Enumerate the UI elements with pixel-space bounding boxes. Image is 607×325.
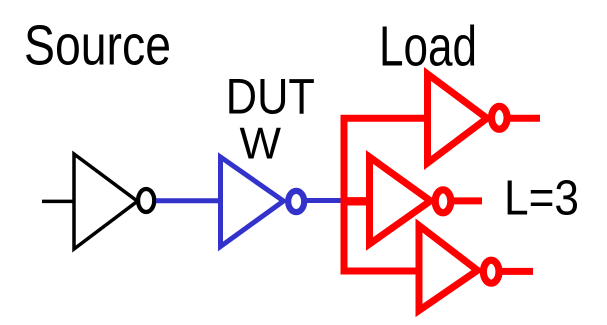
inverter U1 source (black) triangle — [74, 154, 138, 249]
inverter U3 output bubble — [492, 106, 508, 129]
inverter U4 output bubble — [435, 190, 451, 213]
inverter U5 output bubble — [483, 260, 499, 283]
wire: source output to DUT input (blue) — [156, 198, 221, 203]
wire: red load bus (top branch, vertical, bottom branch) — [344, 118, 428, 271]
svg-text:DUT: DUT — [226, 69, 315, 125]
inverter U2 output bubble — [288, 191, 304, 212]
svg-text:Source: Source — [24, 15, 171, 78]
wire: U4 output stub — [453, 197, 483, 204]
wire: U3 output stub — [506, 115, 540, 122]
inverter U1 output bubble — [138, 189, 154, 212]
inverter U5 load bottom (red) triangle — [419, 226, 478, 311]
svg-text:W: W — [240, 120, 282, 169]
svg-text:L=3: L=3 — [504, 171, 579, 225]
wire: U5 output stub — [502, 268, 533, 275]
inverter U2 DUT (blue) triangle — [221, 157, 284, 247]
wire: bus to middle load inverter input — [344, 197, 370, 205]
wire: DUT output to load bus (blue) — [305, 198, 344, 203]
inverter U3 load top (red) triangle — [428, 74, 488, 163]
inverter U4 load middle (red) triangle — [370, 157, 431, 244]
wire: source input stub — [42, 200, 75, 204]
svg-text:Load: Load — [379, 15, 477, 78]
